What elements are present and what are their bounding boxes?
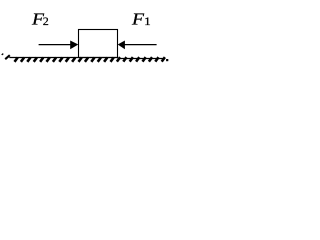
- ground hatching first stroke: [5, 55, 10, 59]
- force arrow F2: [39, 41, 79, 50]
- end dot: [166, 59, 168, 61]
- force arrow F1: [118, 41, 157, 50]
- label F2: [31, 9, 49, 28]
- svg-text:2: 2: [43, 14, 49, 28]
- ground line left: [9, 57, 117, 59]
- block M: [79, 30, 118, 58]
- svg-text:F: F: [131, 9, 145, 28]
- ground hatching left tick: [2, 54, 4, 55]
- ground hatching: [15, 57, 165, 62]
- ground line right: [118, 58, 166, 60]
- label F1: [131, 9, 151, 28]
- svg-text:1: 1: [144, 14, 151, 28]
